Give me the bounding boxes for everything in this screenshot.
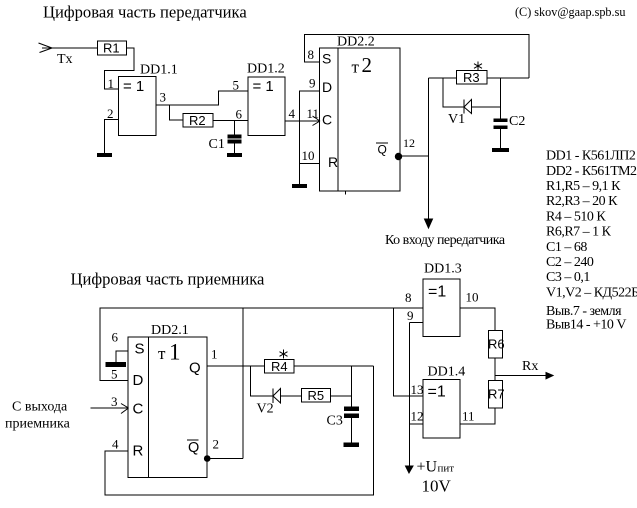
wire Rx output bbox=[495, 375, 547, 377]
svg-text:С выхода: С выхода bbox=[12, 400, 68, 415]
op-amp gate DD1.2 bbox=[248, 77, 285, 136]
node arrowhead to transmitter bbox=[425, 219, 433, 228]
wire top net: S pin to R3 right bbox=[305, 35, 530, 79]
node parts list bbox=[546, 149, 637, 333]
svg-text:DD1 - К561ЛП2: DD1 - К561ЛП2 bbox=[546, 149, 636, 164]
svg-text:R2,R3 – 20 К: R2,R3 – 20 К bbox=[546, 194, 618, 209]
node Q output junction pin 12 bbox=[395, 153, 401, 159]
wire R6 to R7 bbox=[494, 358, 496, 381]
wire DD1.4 pin 12 bbox=[410, 423, 424, 425]
svg-text:DD1.4: DD1.4 bbox=[428, 365, 466, 380]
svg-text:D: D bbox=[322, 79, 332, 95]
svg-text:5: 5 bbox=[233, 78, 240, 93]
wire R3 left bbox=[429, 77, 457, 79]
svg-text:5: 5 bbox=[111, 367, 118, 382]
wire output vertical to transmitter bbox=[428, 78, 430, 220]
node asterisk R4 bbox=[280, 350, 288, 359]
svg-text:3: 3 bbox=[160, 90, 167, 105]
svg-text:DD2 - К561ТМ2: DD2 - К561ТМ2 bbox=[546, 164, 637, 179]
svg-text:3: 3 bbox=[111, 394, 118, 409]
wire DD1.3 pin 10 to R6 bbox=[460, 308, 495, 331]
svg-text:11: 11 bbox=[462, 409, 475, 424]
svg-text:С3 – 0,1: С3 – 0,1 bbox=[546, 270, 590, 285]
svg-text:Q: Q bbox=[378, 143, 387, 157]
ground bbox=[293, 185, 307, 188]
resistor R4 bbox=[265, 360, 295, 374]
wire C3 stem bbox=[351, 366, 353, 407]
svg-text:12: 12 bbox=[403, 136, 415, 150]
wire R4 right to bottom net bbox=[294, 365, 374, 367]
node arrowhead Rx bbox=[546, 373, 553, 379]
node Tx arrowhead bbox=[39, 43, 53, 53]
wire D-R feedback with ground bbox=[300, 91, 320, 185]
ground bbox=[106, 363, 126, 367]
svg-text:Q: Q bbox=[189, 360, 201, 377]
node arrowhead C input bbox=[313, 116, 321, 126]
wire top net vertical to Q-bar bbox=[242, 308, 244, 459]
wire top net D=Qbar and to DD1.3 pin 8 bbox=[100, 308, 423, 381]
flip-flop DD2.2 bbox=[320, 48, 401, 191]
resistor R2 bbox=[183, 114, 213, 128]
svg-text:1: 1 bbox=[169, 340, 181, 365]
capacitor C3 bbox=[345, 407, 359, 410]
wire R1 to DD1.1 pin 1 bbox=[105, 48, 135, 89]
svg-text:11: 11 bbox=[307, 106, 320, 121]
node asterisk R3 bbox=[474, 62, 482, 71]
svg-text:2: 2 bbox=[362, 53, 373, 77]
wire R5 right bbox=[331, 395, 352, 397]
svg-text:8: 8 bbox=[405, 290, 412, 305]
svg-text:DD1.3: DD1.3 bbox=[424, 262, 462, 277]
svg-text:V2: V2 bbox=[257, 402, 274, 417]
svg-text:приемника: приемника bbox=[5, 417, 71, 432]
ground bbox=[228, 154, 242, 157]
diode V1 bbox=[463, 100, 465, 114]
svg-text:R7: R7 bbox=[488, 387, 505, 402]
svg-text:6: 6 bbox=[112, 330, 119, 345]
svg-text:+U: +U bbox=[417, 459, 438, 476]
svg-text:R6: R6 bbox=[488, 337, 505, 352]
resistor R7 bbox=[489, 381, 503, 409]
wire DD1.1 pin 3 to DD1.2 pin 5 bbox=[156, 91, 248, 105]
svg-text:2: 2 bbox=[213, 437, 220, 452]
svg-text:Цифровая часть передатчика: Цифровая часть передатчика bbox=[43, 3, 247, 22]
wire V1 branch bbox=[443, 78, 464, 107]
wire pins 9-12 to power bbox=[409, 323, 411, 467]
wire C2 stem bbox=[500, 78, 502, 119]
svg-text:R4: R4 bbox=[271, 359, 288, 374]
svg-text:R2: R2 bbox=[189, 113, 206, 128]
svg-text:R6,R7 – 1 К: R6,R7 – 1 К bbox=[546, 225, 612, 240]
svg-text:DD2.1: DD2.1 bbox=[151, 323, 189, 338]
op-amp gate DD1.1 bbox=[119, 77, 157, 136]
svg-text:C2: C2 bbox=[509, 114, 525, 129]
svg-text:Rx: Rx bbox=[522, 359, 538, 374]
svg-text:C3: C3 bbox=[327, 414, 343, 429]
svg-text:10: 10 bbox=[302, 148, 315, 163]
wire V2 branch bbox=[251, 366, 274, 396]
svg-text:1: 1 bbox=[211, 347, 218, 362]
svg-text:R1: R1 bbox=[103, 41, 120, 56]
wire R pin 4 to bottom net bbox=[105, 366, 374, 495]
wire branch node to R2 bbox=[170, 105, 184, 120]
resistor R5 bbox=[302, 389, 331, 403]
svg-text:Цифровая часть приемника: Цифровая часть приемника bbox=[71, 270, 266, 289]
svg-text:R: R bbox=[328, 154, 338, 170]
wire top net to DD1.4 pin 13 bbox=[394, 308, 424, 396]
svg-text:R1,R5 – 9,1 К: R1,R5 – 9,1 К bbox=[546, 179, 621, 194]
svg-text:Ко входу передатчика: Ко входу передатчика bbox=[385, 233, 506, 248]
svg-text:C: C bbox=[133, 401, 144, 418]
wire C1 stem bbox=[234, 121, 236, 136]
svg-text:R: R bbox=[133, 443, 144, 460]
wire R2 to DD1.2 pin 6 bbox=[213, 120, 248, 122]
resistor R3 bbox=[457, 71, 488, 85]
node arrowhead C input bbox=[121, 404, 129, 414]
svg-text:=1: =1 bbox=[428, 384, 446, 401]
node Q-bar junction pin 2 bbox=[204, 456, 210, 462]
svg-text:пит: пит bbox=[438, 463, 455, 475]
svg-text:13: 13 bbox=[411, 382, 424, 397]
svg-text:S: S bbox=[322, 50, 331, 66]
svg-text:R3: R3 bbox=[463, 70, 480, 85]
svg-text:10V: 10V bbox=[422, 477, 452, 496]
wire R3 right bbox=[487, 77, 529, 79]
svg-text:= 1: = 1 bbox=[253, 78, 274, 95]
wire Q pin 1 to R4 bbox=[207, 365, 265, 367]
svg-text:C1: C1 bbox=[209, 137, 225, 152]
svg-text:S: S bbox=[135, 341, 145, 358]
wire DD1.3 pin 9 bbox=[410, 322, 424, 324]
wire R7 to DD1.4 pin 11 bbox=[460, 408, 495, 424]
ground bbox=[98, 154, 112, 157]
svg-text:Q: Q bbox=[188, 440, 199, 456]
resistor R1 bbox=[98, 41, 127, 55]
op-amp gate DD1.4 bbox=[423, 380, 460, 439]
svg-text:V1,V2 – КД522Б: V1,V2 – КД522Б bbox=[546, 285, 637, 300]
svg-text:12: 12 bbox=[411, 409, 424, 424]
node arrowhead power bbox=[406, 466, 414, 473]
svg-text:4: 4 bbox=[289, 106, 296, 121]
svg-text:9: 9 bbox=[309, 76, 316, 91]
svg-text:С2 – 240: С2 – 240 bbox=[546, 255, 594, 270]
svg-text:т: т bbox=[352, 58, 360, 77]
svg-text:R5: R5 bbox=[308, 388, 325, 403]
ground bbox=[493, 149, 509, 152]
resistor R6 bbox=[489, 331, 503, 359]
svg-text:V1: V1 bbox=[448, 112, 465, 127]
wire S pin 6 to ground bbox=[116, 351, 128, 363]
svg-text:10: 10 bbox=[466, 290, 479, 305]
op-amp gate DD1.3 bbox=[423, 279, 460, 337]
svg-text:8: 8 bbox=[308, 47, 315, 62]
flip-flop DD2.1 bbox=[128, 337, 207, 478]
svg-text:6: 6 bbox=[236, 107, 243, 122]
svg-text:DD1.1: DD1.1 bbox=[140, 63, 178, 78]
svg-text:=1: =1 bbox=[428, 284, 446, 301]
node bottom tick bbox=[345, 191, 347, 195]
wire Tx input bbox=[42, 47, 97, 49]
svg-text:DD1.2: DD1.2 bbox=[247, 62, 285, 77]
svg-text:т: т bbox=[158, 344, 166, 363]
wire DD1.1 pin 2 to ground bbox=[105, 120, 119, 154]
diode V2 bbox=[272, 389, 274, 404]
svg-text:4: 4 bbox=[112, 437, 119, 452]
ground bbox=[344, 443, 359, 446]
wire C input bbox=[91, 407, 129, 409]
svg-text:Выв14 - +10 V: Выв14 - +10 V bbox=[546, 318, 626, 333]
svg-text:9: 9 bbox=[407, 308, 414, 323]
svg-text:R4 – 510 К: R4 – 510 К bbox=[546, 209, 606, 224]
svg-text:Tx: Tx bbox=[57, 52, 73, 67]
svg-text:С1 – 68: С1 – 68 bbox=[546, 240, 587, 255]
svg-text:2: 2 bbox=[107, 106, 114, 121]
capacitor C2 bbox=[494, 119, 507, 122]
svg-text:DD2.2: DD2.2 bbox=[337, 35, 375, 50]
svg-text:D: D bbox=[133, 372, 144, 389]
wire pin 12 to output node bbox=[400, 155, 429, 157]
svg-text:C: C bbox=[322, 112, 332, 128]
wire Q-bar pin 2 bbox=[207, 458, 243, 460]
svg-text:= 1: = 1 bbox=[123, 78, 144, 95]
capacitor C1 bbox=[228, 135, 241, 138]
svg-text:(C) skov@gaap.spb.su: (C) skov@gaap.spb.su bbox=[515, 5, 625, 19]
wire DD1.2 pin 4 to DD2.2 C input bbox=[285, 120, 320, 122]
svg-text:1: 1 bbox=[108, 76, 115, 91]
